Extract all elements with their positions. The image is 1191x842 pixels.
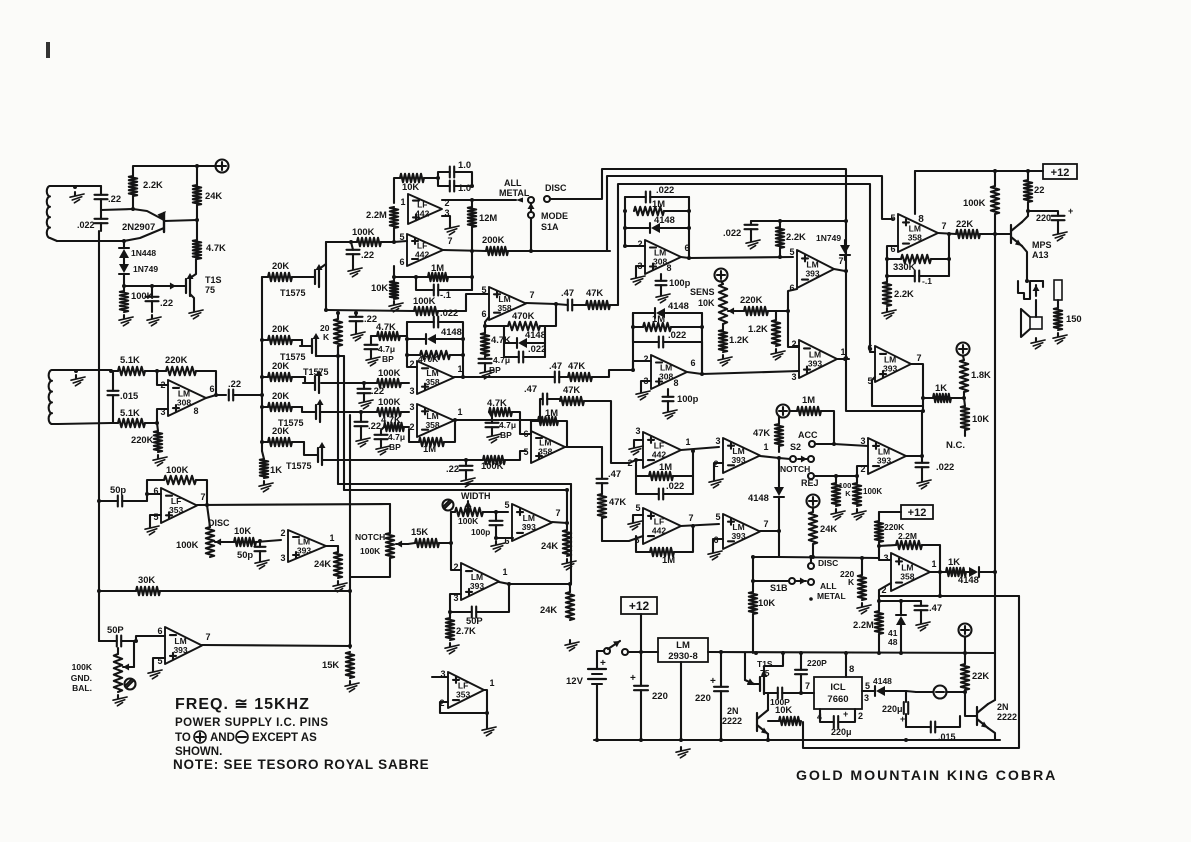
svg-text:7660: 7660 (827, 694, 848, 705)
svg-text:T1575: T1575 (286, 461, 312, 471)
wire all-metal bus (618, 184, 875, 352)
wire u19 top to rail (914, 171, 916, 214)
capacitor .022 box1 (625, 184, 689, 203)
svg-text:.22: .22 (446, 463, 459, 474)
label NOTCH pot (355, 532, 385, 556)
diode zener 1N749 mid (816, 233, 850, 260)
junction (565, 488, 569, 525)
junction (507, 582, 572, 586)
junction (461, 375, 465, 379)
svg-text:8: 8 (849, 664, 854, 675)
wire sw2 out (316, 355, 344, 357)
svg-text:50P: 50P (107, 624, 124, 635)
wire sw2 gate (301, 340, 303, 346)
svg-text:7: 7 (205, 632, 210, 642)
resistor 1.8K (960, 356, 991, 398)
svg-text:1: 1 (685, 437, 690, 447)
svg-text:3: 3 (883, 553, 888, 563)
transistor Q5 2N2222 (722, 706, 768, 734)
resistor 20K row2 (262, 323, 302, 344)
ground (565, 640, 579, 651)
wire u25 pin3 (450, 594, 461, 612)
resistor 20K row1 (262, 260, 305, 281)
wire q5 emitter (767, 734, 769, 740)
svg-text:4148: 4148 (654, 214, 675, 225)
capacitor .22 gate (146, 284, 174, 312)
wire U4 out (443, 250, 486, 251)
svg-text:393: 393 (805, 269, 819, 279)
svg-text:47K: 47K (586, 287, 603, 298)
svg-text:5: 5 (504, 500, 509, 510)
wire box1 to out (688, 228, 690, 258)
svg-text:442: 442 (652, 450, 666, 460)
wire U22 out (326, 545, 338, 547)
label pin7 (805, 681, 810, 691)
speaker SP1 (1021, 300, 1042, 337)
resistor 15K notch (408, 526, 451, 547)
svg-text:358: 358 (538, 447, 552, 457)
wire drain bus 1b (337, 346, 339, 484)
op-amp U3 LF442 (400, 194, 449, 224)
junction (691, 449, 695, 453)
wire +12 down (640, 614, 642, 652)
wire U19 out (938, 233, 956, 234)
svg-text:5: 5 (481, 285, 486, 295)
svg-text:15K: 15K (322, 659, 339, 670)
svg-text:393: 393 (877, 456, 891, 466)
junction (470, 249, 474, 253)
FET T1575 sw5 (286, 442, 326, 471)
note power supply 2 (175, 731, 317, 744)
wire 30K row (99, 590, 136, 592)
junction (392, 240, 396, 244)
svg-text:+: + (630, 673, 636, 684)
svg-text:2: 2 (409, 422, 414, 432)
op-amp U5 LM358 (481, 285, 534, 320)
ground (356, 436, 370, 447)
resistor 100K rej a (832, 476, 851, 506)
svg-text:20K: 20K (272, 360, 289, 371)
ground (351, 330, 365, 341)
svg-text:WIDTH: WIDTH (461, 491, 491, 501)
svg-text:1: 1 (502, 567, 507, 577)
junction (470, 184, 474, 202)
wire output (206, 395, 226, 398)
junction (623, 244, 627, 248)
svg-text:20K: 20K (272, 260, 289, 271)
svg-text:1N749: 1N749 (816, 233, 841, 243)
wire pin5 (394, 241, 407, 242)
svg-text:1.2K: 1.2K (748, 323, 768, 334)
ground (113, 695, 127, 706)
resistor 10K nc (961, 398, 990, 436)
svg-text:20K: 20K (272, 323, 289, 334)
resistor 2.2K (129, 176, 163, 209)
svg-text:4.7μ: 4.7μ (388, 432, 405, 442)
note FREQ (175, 696, 310, 713)
scan mark (46, 42, 50, 58)
resistor 220K feedback (157, 354, 216, 395)
op-amp U22 LM393 (280, 528, 334, 563)
capacitor 220 a (630, 652, 668, 740)
svg-text:8: 8 (918, 214, 924, 225)
ground u21 pin5 (145, 515, 161, 535)
svg-text:100K: 100K (481, 460, 504, 471)
svg-text:75: 75 (205, 285, 215, 295)
svg-text:1M: 1M (545, 407, 558, 418)
resistor 4.7K bp2 (371, 321, 407, 340)
ground coil L1 (70, 192, 84, 203)
resistor 100K (120, 286, 154, 312)
svg-text:100K: 100K (413, 295, 436, 306)
svg-text:2222: 2222 (722, 716, 742, 726)
resistor 2.2K out (883, 276, 914, 306)
svg-text:ICL: ICL (830, 682, 846, 693)
wire box3 rails (631, 313, 704, 370)
svg-text:.022: .022 (656, 184, 674, 195)
wire U9 out (687, 371, 799, 374)
svg-text:GOLD MOUNTAIN KING COBRA: GOLD MOUNTAIN KING COBRA (796, 768, 1057, 784)
svg-text:24K: 24K (541, 540, 558, 551)
switch S1A mode (528, 183, 569, 232)
svg-text:100K: 100K (166, 464, 189, 475)
capacitor 50p a (97, 484, 147, 507)
svg-text:2.2M: 2.2M (898, 531, 917, 541)
svg-text:DISC: DISC (818, 558, 838, 568)
resistor 100K (351, 226, 394, 246)
junction (74, 369, 113, 373)
resistor 100K bp4 (322, 451, 526, 471)
junction (877, 544, 881, 548)
resistor 1K out (946, 556, 966, 576)
resistor 2.7K (446, 612, 476, 640)
svg-text:150: 150 (1066, 313, 1082, 324)
wire sw1 source (319, 264, 326, 269)
svg-text:3: 3 (635, 426, 640, 436)
svg-text:6: 6 (690, 358, 695, 368)
junction (719, 650, 967, 655)
svg-text:393: 393 (522, 522, 536, 532)
capacitor 220 b (695, 652, 728, 740)
diode 4148 notch (748, 458, 784, 557)
switch S1B (751, 558, 846, 601)
ground (857, 603, 871, 614)
potentiometer WIDTH 100K (451, 501, 496, 526)
wire base (133, 209, 164, 220)
junction (885, 257, 951, 278)
ground (153, 455, 167, 466)
resistor 220K th (875, 512, 905, 546)
svg-text:LM: LM (676, 640, 690, 651)
resistor 100K bp2 (321, 367, 409, 387)
power - circle (906, 686, 965, 699)
FET Q2 TIS75 (174, 273, 222, 296)
capacitor .22 bp2 (358, 383, 385, 398)
wire disc out loop (803, 596, 1019, 748)
wire base node (101, 209, 133, 210)
svg-text:1N448: 1N448 (131, 248, 156, 258)
transistor Q6 2N2222 (977, 702, 1017, 728)
svg-text:20K: 20K (272, 425, 289, 436)
wire drain bus 2 (343, 356, 345, 490)
wire loop top b (344, 489, 566, 491)
svg-text:2: 2 (280, 528, 285, 538)
svg-text:3: 3 (409, 402, 414, 412)
svg-text:220K: 220K (165, 354, 188, 365)
op-amp U17 LF442 (634, 503, 693, 545)
diode 4148 box1 (625, 214, 689, 233)
resistor 1.2K sens b (748, 311, 780, 346)
capacitor 4.7u bp2 (365, 336, 396, 364)
op-amp U2 LM308 (160, 380, 214, 417)
resistor 47K u17 (598, 483, 627, 541)
resistor 1M acc (790, 394, 834, 415)
potentiometer GND BAL 100K (71, 641, 136, 693)
svg-text:24K: 24K (540, 604, 557, 615)
capacitor .022 u16 (916, 456, 955, 478)
junction (920, 454, 924, 458)
switch S2 notch (779, 442, 819, 488)
coil L2 receive (49, 370, 76, 424)
resistor 100K u21 (147, 464, 207, 505)
svg-text:1M: 1M (652, 198, 665, 209)
wire fb right (948, 234, 950, 276)
svg-text:393: 393 (173, 645, 187, 655)
svg-text:393: 393 (731, 455, 745, 465)
junction (214, 393, 218, 397)
svg-text:.47: .47 (549, 360, 562, 371)
svg-text:T1575: T1575 (280, 288, 306, 298)
wire U13 out (911, 364, 923, 411)
wire ref line (751, 220, 845, 222)
label pin8 (846, 653, 854, 677)
svg-text:4.7K: 4.7K (206, 242, 226, 253)
wire U14 out (681, 447, 719, 450)
ground coil L2 (71, 375, 85, 386)
wire S1A to disc line (530, 218, 532, 251)
wire U18 out (760, 530, 779, 532)
svg-text:100K: 100K (863, 487, 882, 496)
transistor Q1 2N2907 (122, 211, 166, 233)
svg-text:3: 3 (791, 372, 796, 382)
junction (921, 396, 925, 413)
ground (917, 478, 931, 489)
wire U12 out (837, 358, 849, 360)
capacitor .015 (108, 371, 139, 423)
svg-text:10K: 10K (758, 597, 775, 608)
svg-text:1M: 1M (431, 262, 444, 273)
resistor 1M feedback (392, 262, 474, 281)
svg-text:100K: 100K (360, 546, 381, 556)
junction (799, 691, 803, 695)
potentiometer DISC 100K (176, 505, 228, 557)
capacitor 100p ps (764, 688, 814, 708)
capacitor .22 bp3 (355, 412, 382, 436)
capacitor .1 fb (887, 271, 949, 287)
label ACC (798, 430, 834, 447)
wire U16 out (906, 411, 922, 456)
wire Q3 collector (1022, 211, 1028, 222)
diode 4148 u5 (504, 326, 546, 357)
svg-text:470K: 470K (418, 354, 439, 364)
ground (147, 315, 161, 326)
svg-text:1K: 1K (270, 464, 282, 475)
capacitor .022 box3 (633, 329, 702, 348)
resistor 24K (193, 166, 223, 220)
svg-text:METAL: METAL (817, 591, 846, 601)
wire box1 rails (623, 197, 691, 230)
op-amp U23 LM393 (157, 626, 210, 666)
svg-text:.22: .22 (228, 378, 241, 389)
wire u20 pin3 (879, 546, 891, 560)
wire width pin5 (496, 511, 508, 513)
label pin4 (817, 709, 830, 722)
svg-text:2N: 2N (997, 702, 1009, 712)
wire mode bus (607, 176, 893, 251)
svg-text:+: + (900, 714, 905, 724)
svg-text:FREQ. ≅ 15KHZ: FREQ. ≅ 15KHZ (175, 696, 310, 713)
svg-text:-.1: -.1 (922, 276, 932, 286)
wire fb box u5 (483, 324, 504, 328)
resistor 220K sens (740, 294, 788, 315)
potentiometer NOTCH 100K (350, 504, 408, 577)
svg-text:1: 1 (489, 678, 494, 688)
resistor 150 jack (1054, 280, 1082, 330)
junction (131, 207, 135, 211)
svg-text:5: 5 (153, 512, 158, 522)
ground (359, 398, 373, 409)
svg-text:4148: 4148 (525, 329, 546, 340)
svg-text:100K: 100K (378, 367, 401, 378)
resistor 10K sw (749, 555, 779, 653)
resistor 22 (1024, 171, 1045, 211)
ground (366, 355, 380, 366)
wire fb down (939, 573, 941, 596)
ground u23 pin5 (148, 658, 165, 679)
svg-text:3: 3 (715, 436, 720, 446)
wire U5 out (526, 303, 556, 304)
ground (480, 368, 494, 379)
power + q6 (959, 624, 972, 637)
wire drain bus 3 (349, 415, 351, 648)
resistor 1.2K sens a (719, 324, 749, 352)
junction (97, 589, 101, 593)
wire reg out rail (708, 652, 995, 653)
svg-text:A13: A13 (1032, 250, 1049, 260)
svg-text:220: 220 (652, 691, 668, 702)
ground (882, 308, 896, 319)
capacitor .47 th (915, 601, 943, 620)
svg-text:4148: 4148 (873, 676, 892, 686)
wire U6 out (454, 376, 545, 378)
capacitor 1.0 b (438, 178, 472, 193)
junction (811, 555, 864, 560)
junction (453, 418, 457, 422)
resistor 100K bp3 (320, 396, 409, 416)
label pin5 (865, 681, 870, 691)
svg-text:1: 1 (840, 347, 845, 357)
svg-text:20K: 20K (272, 390, 289, 401)
resistor 1M u8 (531, 407, 567, 447)
label WIDTH (443, 491, 491, 511)
wire U7 out (454, 419, 540, 421)
resistor 470K u5 (504, 310, 545, 330)
ground (461, 476, 475, 487)
svg-text:393: 393 (731, 531, 745, 541)
wire fb left (887, 246, 898, 276)
diode 4148 ps (862, 676, 906, 696)
battery B1 12V (566, 651, 606, 740)
svg-text:2.2K: 2.2K (894, 288, 914, 299)
ground U3 (442, 216, 459, 235)
transistor Q3 MPSA13 (1011, 222, 1052, 260)
capacitor 100p u9 (663, 389, 699, 408)
wire gate TIS75 (124, 283, 176, 290)
svg-text:8: 8 (673, 378, 678, 388)
resistor 4.7K bp4 (487, 397, 531, 434)
svg-text:12V: 12V (566, 676, 584, 687)
wire reg gnd (680, 662, 682, 740)
svg-text:7: 7 (838, 256, 843, 266)
svg-text:220K: 220K (740, 294, 763, 305)
svg-text:.022: .022 (440, 307, 458, 318)
box +12 right (901, 505, 933, 519)
svg-text:BP: BP (382, 354, 394, 364)
svg-text:5: 5 (789, 247, 794, 257)
svg-text:7: 7 (688, 513, 693, 523)
svg-text:.47: .47 (929, 602, 942, 613)
resistor 12M (468, 200, 498, 251)
wire u20 pin2 net (879, 583, 891, 611)
capacitor 4.7u BP (479, 355, 511, 375)
resistor 10K bias (371, 277, 398, 299)
wire emitter to 24K (164, 220, 197, 221)
junction (595, 738, 908, 742)
junction (155, 369, 159, 373)
svg-text:100K: 100K (176, 539, 199, 550)
FET T1575 sw1 (280, 264, 323, 298)
svg-text:2.2K: 2.2K (143, 179, 163, 190)
resistor 30K (136, 574, 350, 595)
svg-text:.015: .015 (938, 732, 956, 742)
wire box1 left (625, 228, 645, 246)
svg-text:4148: 4148 (958, 574, 979, 585)
wire to channel (326, 241, 351, 243)
wire batt to sw (597, 650, 604, 652)
op-amp U7 LM358 (409, 402, 462, 437)
label ALL METAL (499, 178, 530, 203)
svg-text:5: 5 (635, 503, 640, 513)
junction (73, 185, 77, 189)
junction (122, 239, 126, 243)
junction (877, 599, 903, 603)
svg-text:.22: .22 (371, 385, 384, 396)
resistor 15K (322, 652, 354, 678)
diode 4148 out (958, 567, 995, 585)
svg-text:1M: 1M (802, 394, 815, 405)
diode zener 1N749 (119, 258, 158, 286)
svg-text:7: 7 (941, 221, 946, 231)
junction (362, 381, 366, 385)
svg-text:220P: 220P (807, 658, 827, 668)
wire U12 pin2 (793, 345, 799, 347)
resistor 1K nc (923, 382, 964, 402)
svg-text:7: 7 (529, 290, 534, 300)
svg-text:+: + (710, 676, 716, 687)
svg-text:220μ: 220μ (831, 727, 852, 737)
resistor 1M u17 (636, 526, 693, 565)
op-amp U13 LM393 (867, 343, 921, 386)
